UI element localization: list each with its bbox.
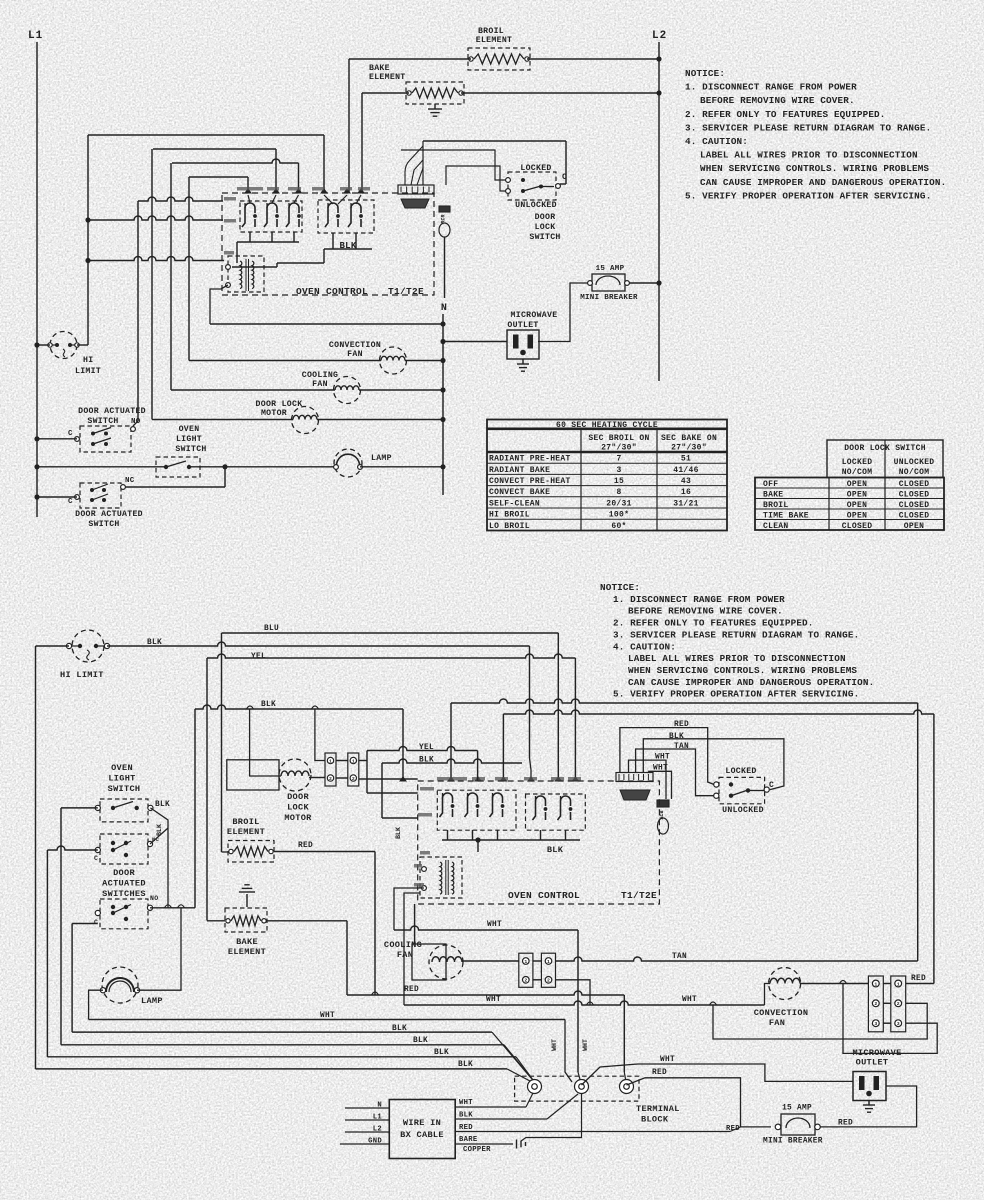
svg-text:OVEN: OVEN (111, 763, 133, 773)
wire bracket 2 (153, 148, 276, 150)
svg-text:FAN: FAN (769, 1018, 785, 1028)
svg-text:DOOR ACTUATED: DOOR ACTUATED (75, 510, 143, 519)
svg-text:WHT: WHT (486, 996, 501, 1004)
svg-text:FAN: FAN (347, 350, 363, 359)
wires into connector from harness (405, 146, 423, 185)
svg-text:LIGHT: LIGHT (176, 435, 202, 444)
svg-text:OPEN: OPEN (847, 480, 867, 489)
wire lamp row from L1 (37, 466, 166, 468)
svg-text:MOTOR: MOTOR (261, 409, 287, 418)
svg-text:SWITCH: SWITCH (88, 520, 119, 529)
door lock motor plug pair (325, 753, 336, 786)
wire RED post3 to mini breaker (627, 1078, 772, 1127)
svg-text:SWITCH: SWITCH (175, 445, 206, 454)
svg-text:DOOR ACTUATED: DOOR ACTUATED (78, 407, 146, 416)
wire post2 to ground (521, 1094, 582, 1141)
oven control box T1/T2E (top diagram) (222, 193, 434, 295)
svg-text:4. CAUTION:: 4. CAUTION: (685, 136, 748, 147)
svg-text:CLOSED: CLOSED (899, 480, 930, 489)
svg-text:DOOR: DOOR (113, 868, 135, 878)
wire convection fan left riser (765, 984, 771, 1006)
svg-text:BAKE: BAKE (369, 64, 390, 73)
svg-text:ELEMENT: ELEMENT (227, 827, 265, 837)
svg-text:WHT: WHT (551, 1039, 558, 1051)
svg-text:2: 2 (874, 1001, 877, 1007)
door lock switch table (827, 440, 943, 478)
hi limit switch (bottom) (72, 630, 104, 662)
buzzer RCR (top) (439, 206, 450, 212)
wire BLK row 2 to control (195, 705, 403, 709)
svg-text:2: 2 (329, 776, 332, 782)
svg-text:41/46: 41/46 (673, 466, 699, 475)
svg-text:OVEN: OVEN (179, 425, 200, 434)
svg-text:BEFORE REMOVING WIRE COVER.: BEFORE REMOVING WIRE COVER. (700, 95, 855, 106)
svg-text:TIME BAKE: TIME BAKE (763, 511, 809, 520)
svg-text:BROIL: BROIL (763, 501, 789, 510)
wire broil element left to control (349, 58, 471, 60)
svg-text:1: 1 (352, 758, 355, 764)
wire oven light common to left bus (61, 807, 98, 809)
svg-text:RED: RED (459, 1124, 473, 1132)
svg-text:2: 2 (897, 1001, 900, 1007)
svg-text:31/21: 31/21 (673, 499, 699, 508)
svg-text:SWITCHES: SWITCHES (102, 889, 146, 899)
svg-text:LOCK: LOCK (287, 803, 309, 813)
svg-text:CLOSED: CLOSED (899, 511, 930, 520)
wire cooling fan feed (414, 904, 416, 944)
svg-text:1: 1 (874, 981, 877, 987)
wire row A to oven control (138, 197, 223, 201)
svg-text:BLK: BLK (458, 1061, 473, 1069)
terminal L2B label (418, 813, 432, 817)
wire BLK bottom row 1 (72, 1031, 492, 1033)
svg-text:NO/COM: NO/COM (842, 468, 873, 477)
svg-text:WHEN SERVICING CONTROLS. WIRIN: WHEN SERVICING CONTROLS. WIRING PROBLEMS (628, 665, 857, 676)
wire hi limit to riser x88 (77, 344, 88, 346)
wire BLK to control terminal (382, 759, 522, 763)
svg-text:1: 1 (547, 959, 550, 965)
wire riser row A to door switch NO (137, 201, 139, 421)
svg-text:1. DISCONNECT RANGE FROM POWER: 1. DISCONNECT RANGE FROM POWER (685, 82, 857, 93)
svg-text:5. VERIFY PROPER OPERATION AFT: 5. VERIFY PROPER OPERATION AFTER SERVICI… (685, 190, 931, 201)
svg-text:BAKE: BAKE (236, 937, 258, 947)
svg-text:CLOSED: CLOSED (899, 501, 930, 510)
wire cooling fan to plug (462, 960, 519, 962)
svg-text:RED: RED (652, 1069, 667, 1077)
svg-text:WHT: WHT (459, 1099, 473, 1107)
wire L1 to door switch NC common (37, 496, 77, 498)
wire relay commons (bottom) (442, 839, 580, 841)
svg-text:3. SERVICER PLEASE RETURN DIAG: 3. SERVICER PLEASE RETURN DIAGRAM TO RAN… (613, 629, 859, 640)
svg-text:27"/30": 27"/30" (601, 444, 637, 453)
svg-text:7: 7 (616, 455, 621, 464)
terminal 1N label (224, 197, 236, 201)
svg-text:RADIANT PRE-HEAT: RADIANT PRE-HEAT (489, 455, 571, 464)
wire RED row (347, 991, 624, 995)
svg-text:CLEAN: CLEAN (763, 522, 789, 531)
wire breaker to microwave outlet (538, 283, 588, 342)
svg-text:BLK: BLK (413, 1037, 428, 1045)
svg-text:CAN CAUSE IMPROPER AND DANGERO: CAN CAUSE IMPROPER AND DANGEROUS OPERATI… (628, 677, 874, 688)
wire breaker to microwave outlet (bottom) (820, 1086, 917, 1127)
svg-text:MINI BREAKER: MINI BREAKER (580, 294, 638, 302)
svg-text:C: C (68, 498, 73, 506)
svg-text:SWITCH: SWITCH (87, 417, 118, 426)
wire BLK bottom row 3 (47, 1056, 516, 1058)
wire bracket 1 from bus x88 to control (88, 134, 324, 136)
relay bank B (2 relays) (318, 200, 374, 233)
svg-text:OVEN CONTROL: OVEN CONTROL (296, 286, 368, 297)
svg-text:C: C (562, 173, 567, 182)
wire riser to door switches (194, 709, 196, 908)
svg-text:OPEN: OPEN (847, 490, 867, 499)
svg-text:BAKE: BAKE (763, 490, 783, 499)
svg-text:N: N (441, 303, 447, 314)
svg-text:NO/COM: NO/COM (899, 468, 930, 477)
svg-text:27"/30": 27"/30" (671, 444, 707, 453)
svg-text:NO: NO (150, 895, 158, 902)
wire WHT post2 to microwave outlet (582, 1064, 854, 1085)
svg-text:CLOSED: CLOSED (842, 522, 873, 531)
svg-text:SELF-CLEAN: SELF-CLEAN (489, 499, 540, 508)
hi limit switch (top) (50, 332, 77, 359)
wire neutral row to N bus (210, 323, 443, 325)
door lock motor (bottom) (227, 760, 279, 790)
svg-text:TAN: TAN (672, 953, 687, 961)
svg-text:SWITCH: SWITCH (108, 784, 141, 794)
wire hi limit left to outer bus (36, 645, 70, 647)
svg-text:ELEMENT: ELEMENT (476, 36, 513, 45)
svg-text:RCR: RCR (441, 214, 447, 223)
svg-text:16: 16 (681, 488, 691, 497)
svg-text:BLK: BLK (434, 1049, 449, 1057)
wire cooling plug pin2 to WHT row (556, 980, 591, 1005)
buzzer ACB (bottom) (657, 800, 669, 807)
wire convection plug pin3 loop (843, 984, 937, 1054)
wire lamp right riser (137, 908, 181, 990)
svg-text:BLK: BLK (155, 801, 170, 809)
wire harness to door lock switch unlocked (446, 166, 508, 191)
wire broil element right to L2 (527, 58, 659, 60)
wire bake right to RED row (267, 920, 347, 922)
svg-text:UNLOCKED: UNLOCKED (722, 806, 764, 815)
connector strip (top control) (398, 185, 434, 194)
svg-text:2: 2 (524, 978, 527, 984)
svg-text:3: 3 (874, 1021, 877, 1027)
ground at microwave outlet (bottom) (868, 1101, 870, 1106)
relay bank B (bottom, 2 relays) (526, 794, 586, 830)
svg-text:BEFORE REMOVING WIRE COVER.: BEFORE REMOVING WIRE COVER. (628, 606, 783, 617)
svg-text:RED: RED (726, 1125, 740, 1133)
wire transformer neutral out (210, 285, 228, 324)
wire TAN loop (control to cooling fan plug) (451, 699, 918, 703)
svg-text:20/31: 20/31 (606, 499, 632, 508)
svg-text:CLOSED: CLOSED (899, 490, 930, 499)
wire motor plug pin1 stub to YEL riser (359, 760, 367, 762)
wire riser x189 to convection fan (188, 177, 190, 361)
svg-text:WHT: WHT (660, 1056, 675, 1064)
cooling fan plug pair (519, 953, 533, 987)
relay bank B terminal marks (321, 189, 327, 193)
wire transformer to WHT row 1 (394, 888, 424, 930)
svg-text:BROIL: BROIL (478, 27, 504, 36)
wire convection fan to plug (800, 983, 868, 985)
wire plug gaps (883, 983, 891, 985)
wire bracket 3 (172, 159, 299, 163)
wire L1 bus vertical (36, 42, 38, 517)
svg-text:MICROWAVE: MICROWAVE (511, 311, 558, 320)
svg-text:BX CABLE: BX CABLE (400, 1130, 444, 1140)
wire harness to door lock switch locked (401, 150, 508, 180)
wire door switch lower to bus (72, 923, 98, 925)
svg-text:15 AMP: 15 AMP (596, 265, 625, 273)
svg-text:DOOR: DOOR (287, 792, 309, 802)
svg-text:CAN CAUSE IMPROPER AND DANGERO: CAN CAUSE IMPROPER AND DANGEROUS OPERATI… (700, 177, 946, 188)
svg-text:LOCKED: LOCKED (842, 458, 873, 467)
svg-text:2: 2 (352, 776, 355, 782)
svg-text:ELEMENT: ELEMENT (369, 73, 406, 82)
svg-text:MICROWAVE: MICROWAVE (852, 1048, 901, 1058)
svg-text:LABEL ALL WIRES PRIOR TO DISCO: LABEL ALL WIRES PRIOR TO DISCONNECTION (700, 150, 918, 161)
wire L1 to door switch NO common (37, 438, 77, 440)
wire BLU row (222, 632, 559, 634)
svg-text:CONVECT BAKE: CONVECT BAKE (489, 488, 550, 497)
wire hi limit BLK row to control (107, 642, 530, 646)
ground at microwave outlet (top) (522, 359, 524, 364)
ground at bake element (434, 104, 436, 109)
wire row C to transformer (88, 257, 224, 261)
door actuated switches (bottom) (100, 834, 148, 864)
wire buzzer to N (444, 237, 446, 298)
svg-text:RADIANT BAKE: RADIANT BAKE (489, 466, 550, 475)
svg-text:LABEL ALL WIRES PRIOR TO DISCO: LABEL ALL WIRES PRIOR TO DISCONNECTION (628, 653, 846, 664)
svg-text:8: 8 (616, 488, 621, 497)
svg-text:TERMINAL: TERMINAL (636, 1104, 680, 1114)
svg-text:WHEN SERVICING CONTROLS. WIRIN: WHEN SERVICING CONTROLS. WIRING PROBLEMS (700, 163, 929, 174)
svg-text:BLU: BLU (264, 625, 279, 633)
wire bake element left to control (362, 92, 409, 94)
left bus verticals (bottom) (35, 646, 37, 1069)
svg-text:RED: RED (404, 986, 419, 994)
wire RED row to terminal post 3 (623, 995, 625, 1072)
svg-text:3: 3 (616, 466, 621, 475)
wire transformer to WHT row 2 (404, 893, 420, 1005)
wire RED loop (control to convection plug) (503, 710, 934, 714)
svg-text:UNLOCKED: UNLOCKED (894, 458, 935, 467)
svg-text:L2: L2 (652, 30, 667, 42)
wire cooling fan row (171, 389, 335, 391)
svg-text:T1/T2E: T1/T2E (621, 890, 657, 901)
svg-text:HI: HI (83, 356, 93, 365)
svg-text:RED: RED (298, 842, 313, 850)
svg-text:SWITCH: SWITCH (529, 233, 560, 242)
svg-text:UNLOCKED: UNLOCKED (515, 201, 557, 210)
transformer T1 (top) (228, 256, 264, 292)
wire bake left (207, 920, 225, 922)
wire plug pin1 riser (315, 709, 325, 761)
svg-text:1: 1 (524, 959, 527, 965)
svg-text:DOOR LOCK: DOOR LOCK (256, 400, 303, 409)
wire door switch NO row (150, 907, 195, 909)
svg-text:C: C (94, 855, 98, 862)
svg-text:WIRE IN: WIRE IN (403, 1118, 441, 1128)
svg-text:ELEMENT: ELEMENT (228, 947, 266, 957)
svg-text:HI BROIL: HI BROIL (489, 511, 530, 520)
wire oven light to door switch row (150, 808, 168, 908)
wire motor to plug (309, 777, 325, 779)
wire bake element right to L2 (461, 92, 659, 94)
svg-text:43: 43 (681, 477, 691, 486)
svg-text:15: 15 (614, 477, 624, 486)
svg-text:T1/T2E: T1/T2E (388, 286, 424, 297)
svg-text:SEC BAKE ON: SEC BAKE ON (661, 434, 717, 443)
wire in BX cable box (389, 1100, 455, 1159)
svg-text:OUTLET: OUTLET (507, 321, 538, 330)
transformer T1 (bottom) (420, 857, 462, 898)
svg-text:NOTICE:: NOTICE: (600, 582, 640, 593)
wire N to microwave outlet (443, 341, 507, 343)
svg-text:2. REFER ONLY TO FEATURES EQUI: 2. REFER ONLY TO FEATURES EQUIPPED. (685, 109, 886, 120)
svg-text:3. SERVICER PLEASE RETURN DIAG: 3. SERVICER PLEASE RETURN DIAGRAM TO RAN… (685, 122, 931, 133)
svg-text:BLK: BLK (395, 827, 402, 839)
wire door lock motor row (152, 419, 293, 421)
svg-text:SEC BROIL ON: SEC BROIL ON (588, 434, 649, 443)
wire row B to oven control (88, 216, 223, 220)
wire convection fan row (189, 360, 381, 362)
svg-text:C: C (769, 781, 774, 790)
wire convection plug pin2 loop (713, 1003, 927, 1039)
wire N bus vertical (top) (442, 314, 444, 495)
control terminal marks (bottom) (400, 777, 406, 781)
svg-text:WHT: WHT (487, 921, 502, 929)
lamp (bottom) (102, 967, 138, 1003)
wire BLK bottom row 4 (36, 1068, 508, 1070)
svg-text:LOCK: LOCK (535, 223, 556, 232)
terminal block (515, 1076, 639, 1101)
relay bank A (bottom, 3 relays) (437, 790, 516, 830)
svg-text:DOOR: DOOR (535, 213, 556, 222)
svg-text:FAN: FAN (312, 380, 328, 389)
wire lamp left to WHT row (89, 990, 103, 1019)
svg-text:TAN: TAN (674, 743, 689, 751)
wire YEL row (207, 654, 575, 658)
resistor broil element (468, 48, 530, 70)
svg-text:LIMIT: LIMIT (75, 367, 101, 376)
heating cycle table (487, 420, 727, 531)
svg-text:5. VERIFY PROPER OPERATION AFT: 5. VERIFY PROPER OPERATION AFTER SERVICI… (613, 689, 859, 700)
terminal 1B label (224, 219, 236, 223)
svg-text:WHT: WHT (582, 1039, 589, 1051)
svg-text:RED: RED (911, 975, 926, 983)
svg-text:FAN: FAN (397, 950, 413, 960)
wire harness to door lock switch common (423, 140, 566, 142)
svg-text:BLK: BLK (669, 733, 684, 741)
svg-text:LIGHT: LIGHT (108, 774, 135, 784)
svg-text:100*: 100* (609, 511, 629, 520)
wire broil left (222, 851, 229, 853)
svg-text:OPEN: OPEN (904, 522, 924, 531)
svg-text:CONVECT PRE-HEAT: CONVECT PRE-HEAT (489, 477, 571, 486)
svg-text:HI LIMIT: HI LIMIT (60, 670, 104, 680)
lamp (top) (334, 449, 362, 477)
svg-text:LAMP: LAMP (141, 996, 163, 1006)
wire relay bank A commons (237, 241, 299, 243)
wire BLK bottom row 2 (61, 1044, 504, 1046)
wire L1 to hi limit (37, 344, 50, 346)
svg-text:2: 2 (547, 978, 550, 984)
svg-text:DOOR LOCK SWITCH: DOOR LOCK SWITCH (844, 444, 926, 453)
wire broil right RED riser (274, 851, 375, 853)
svg-text:BLK: BLK (459, 1112, 473, 1120)
svg-text:NOTICE:: NOTICE: (685, 68, 725, 79)
svg-text:MOTOR: MOTOR (284, 813, 312, 823)
svg-text:1: 1 (897, 981, 900, 987)
svg-text:LAMP: LAMP (371, 454, 392, 463)
ground symbol at cable (516, 1140, 518, 1149)
ground at bake element (bottom) (239, 891, 255, 893)
svg-text:CONVECTION: CONVECTION (754, 1008, 809, 1018)
wire WHT row 2 (404, 1001, 765, 1005)
svg-text:C: C (68, 430, 73, 438)
wire riser x171 to cooling fan (170, 163, 172, 390)
svg-text:OUTLET: OUTLET (856, 1058, 889, 1068)
svg-text:BARE: BARE (459, 1136, 478, 1144)
svg-text:COPPER: COPPER (463, 1146, 491, 1154)
wire lamp to N (360, 466, 443, 468)
wire door lock motor feed (250, 709, 281, 776)
svg-text:OPEN: OPEN (847, 501, 867, 510)
terminal L1D label (420, 787, 434, 791)
svg-text:ACTUATED: ACTUATED (102, 879, 146, 889)
relay bank A terminal marks (245, 189, 251, 193)
svg-text:NO: NO (131, 418, 141, 426)
svg-text:WHT: WHT (682, 996, 697, 1004)
svg-text:LOCKED: LOCKED (725, 767, 756, 776)
svg-text:CONVECTION: CONVECTION (329, 341, 381, 350)
svg-text:LO BROIL: LO BROIL (489, 522, 530, 531)
svg-text:4. CAUTION:: 4. CAUTION: (613, 641, 676, 652)
convection plug pair (868, 976, 883, 1032)
svg-text:OPEN: OPEN (847, 511, 867, 520)
svg-text:COOLING: COOLING (302, 371, 339, 380)
svg-text:COOLING: COOLING (384, 940, 422, 950)
svg-text:1. DISCONNECT RANGE FROM POWER: 1. DISCONNECT RANGE FROM POWER (613, 594, 785, 605)
svg-text:2. REFER ONLY TO FEATURES EQUI: 2. REFER ONLY TO FEATURES EQUIPPED. (613, 618, 814, 629)
svg-text:3: 3 (897, 1021, 900, 1027)
svg-text:60*: 60* (611, 522, 626, 531)
svg-text:C: C (94, 919, 98, 926)
wire riser x152 to door lock motor (151, 149, 153, 420)
svg-text:L1: L1 (28, 30, 43, 42)
wire convection plug pin1 RED (906, 983, 934, 985)
connector strip (bottom control) (616, 773, 653, 782)
wire WHT row 1 (394, 926, 578, 930)
wire relay bank B commons (324, 248, 372, 250)
wire WHT lamp row (89, 1019, 565, 1021)
svg-text:OVEN CONTROL: OVEN CONTROL (508, 890, 580, 901)
wire left riser x88 (87, 135, 89, 345)
resistor bake element (406, 82, 464, 104)
wire door switch NC to lamp row (125, 486, 225, 488)
svg-text:51: 51 (681, 455, 691, 464)
svg-text:BLK: BLK (261, 701, 276, 709)
svg-text:YEL: YEL (251, 653, 266, 661)
oven control box T1/T2E (bottom diagram) (418, 781, 660, 904)
wire door switch upper out (150, 828, 168, 844)
wire door switch upper to bus (47, 846, 97, 850)
ribbon cable shading (401, 199, 429, 208)
wire YEL to control terminal (367, 747, 478, 751)
